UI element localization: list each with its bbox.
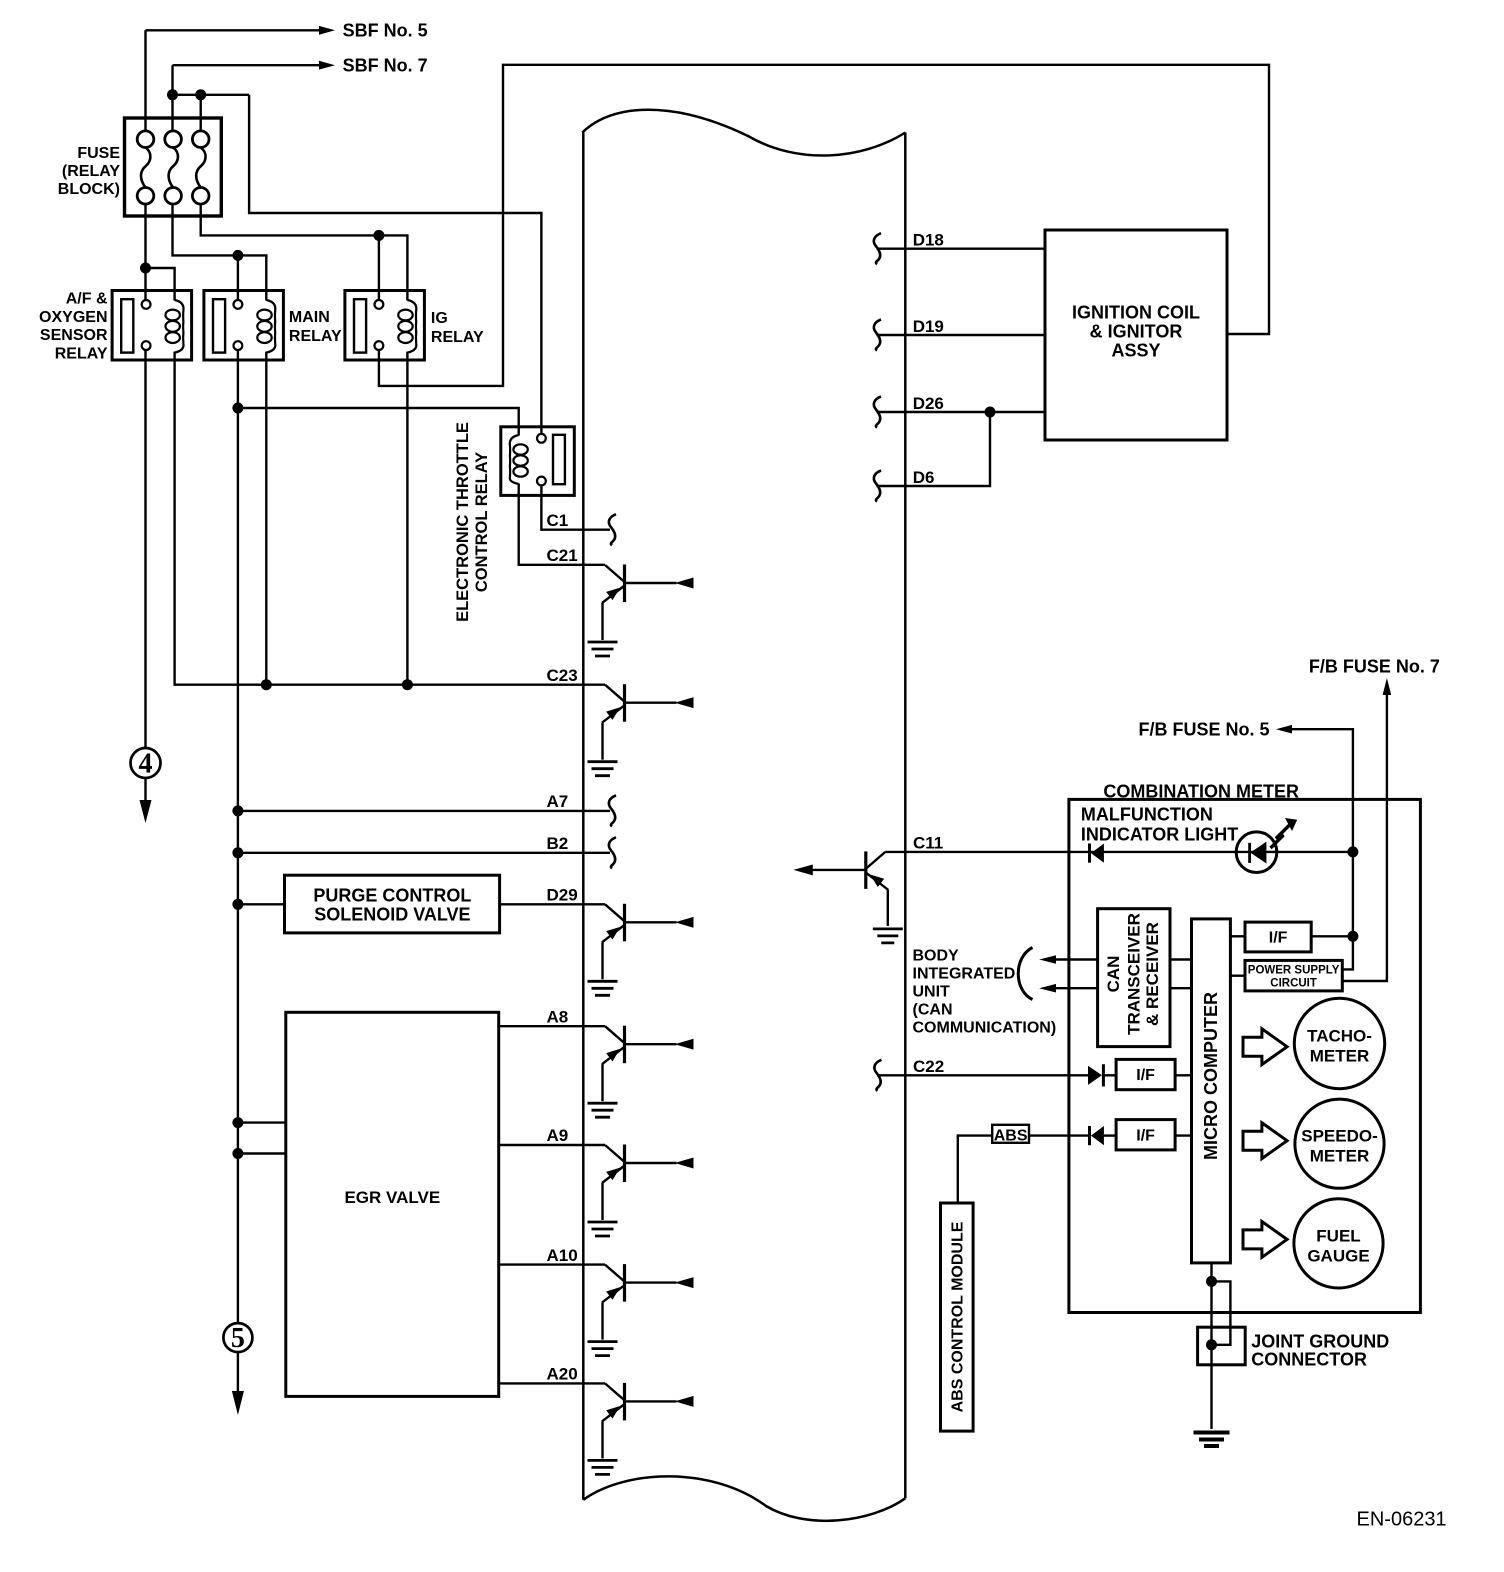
svg-text:GAUGE: GAUGE xyxy=(1307,1247,1369,1266)
svg-text:MAIN: MAIN xyxy=(289,309,330,326)
svg-text:EN-06231: EN-06231 xyxy=(1357,1509,1447,1531)
svg-text:METER: METER xyxy=(1310,1047,1370,1066)
svg-text:C21: C21 xyxy=(547,546,578,565)
svg-text:BLOCK): BLOCK) xyxy=(58,181,120,198)
svg-text:COMBINATION METER: COMBINATION METER xyxy=(1103,782,1299,802)
svg-text:ASSY: ASSY xyxy=(1111,341,1160,361)
svg-text:D26: D26 xyxy=(913,394,944,413)
svg-text:D19: D19 xyxy=(913,317,944,336)
svg-text:D29: D29 xyxy=(547,886,578,905)
svg-text:RELAY: RELAY xyxy=(55,346,108,363)
svg-text:C11: C11 xyxy=(913,834,943,853)
svg-text:FUEL: FUEL xyxy=(1316,1227,1360,1246)
svg-text:A9: A9 xyxy=(547,1126,569,1145)
svg-text:ABS CONTROL MODULE: ABS CONTROL MODULE xyxy=(950,1221,967,1412)
svg-text:CAN: CAN xyxy=(1104,956,1123,993)
svg-text:TACHO-: TACHO- xyxy=(1307,1027,1372,1046)
svg-text:CIRCUIT: CIRCUIT xyxy=(1270,978,1317,990)
svg-text:CONNECTOR: CONNECTOR xyxy=(1251,1350,1367,1370)
svg-text:SBF No. 7: SBF No. 7 xyxy=(343,56,428,76)
svg-text:OXYGEN: OXYGEN xyxy=(39,309,107,326)
svg-text:D6: D6 xyxy=(913,468,935,487)
svg-text:METER: METER xyxy=(1310,1147,1370,1166)
svg-text:IG: IG xyxy=(431,310,448,327)
svg-text:UNIT: UNIT xyxy=(913,984,951,1001)
svg-text:4: 4 xyxy=(139,749,153,780)
svg-text:BODY: BODY xyxy=(913,948,960,965)
svg-text:A8: A8 xyxy=(547,1007,569,1026)
svg-text:COMMUNICATION): COMMUNICATION) xyxy=(913,1020,1057,1037)
svg-text:A7: A7 xyxy=(547,792,569,811)
svg-text:JOINT GROUND: JOINT GROUND xyxy=(1251,1332,1389,1352)
svg-text:RELAY: RELAY xyxy=(289,328,342,345)
svg-text:FUSE: FUSE xyxy=(77,145,120,162)
svg-text:& IGNITOR: & IGNITOR xyxy=(1090,322,1183,342)
svg-text:SOLENOID VALVE: SOLENOID VALVE xyxy=(314,905,470,925)
svg-text:SPEEDO-: SPEEDO- xyxy=(1301,1127,1378,1146)
svg-text:& RECEIVER: & RECEIVER xyxy=(1143,922,1162,1026)
svg-text:C22: C22 xyxy=(913,1057,944,1076)
svg-text:SBF No. 5: SBF No. 5 xyxy=(343,21,428,41)
svg-text:I/F: I/F xyxy=(1269,930,1288,947)
svg-text:C23: C23 xyxy=(547,666,578,685)
svg-text:CONTROL RELAY: CONTROL RELAY xyxy=(473,452,491,592)
svg-text:ABS: ABS xyxy=(994,1128,1028,1145)
svg-text:I/F: I/F xyxy=(1136,1128,1155,1145)
svg-text:INDICATOR LIGHT: INDICATOR LIGHT xyxy=(1081,825,1238,845)
svg-text:ELECTRONIC THROTTLE: ELECTRONIC THROTTLE xyxy=(454,422,472,622)
svg-text:5: 5 xyxy=(231,1323,245,1354)
svg-text:MICRO COMPUTER: MICRO COMPUTER xyxy=(1201,992,1221,1160)
svg-text:MALFUNCTION: MALFUNCTION xyxy=(1081,805,1213,825)
svg-text:RELAY: RELAY xyxy=(431,329,484,346)
svg-text:D18: D18 xyxy=(913,231,944,250)
svg-text:(RELAY: (RELAY xyxy=(62,163,120,180)
svg-text:SENSOR: SENSOR xyxy=(40,327,108,344)
svg-text:A10: A10 xyxy=(547,1246,578,1265)
svg-text:F/B FUSE No. 5: F/B FUSE No. 5 xyxy=(1139,719,1270,739)
svg-text:(CAN: (CAN xyxy=(913,1002,953,1019)
svg-text:PURGE CONTROL: PURGE CONTROL xyxy=(313,886,471,906)
svg-text:IGNITION COIL: IGNITION COIL xyxy=(1072,303,1200,323)
svg-text:INTEGRATED: INTEGRATED xyxy=(913,966,1016,983)
svg-text:I/F: I/F xyxy=(1136,1067,1155,1084)
svg-text:POWER SUPPLY: POWER SUPPLY xyxy=(1248,965,1340,977)
svg-text:TRANSCEIVER: TRANSCEIVER xyxy=(1125,913,1144,1035)
svg-text:A20: A20 xyxy=(547,1365,578,1384)
svg-text:C1: C1 xyxy=(547,511,569,530)
svg-text:EGR VALVE: EGR VALVE xyxy=(344,1188,440,1207)
svg-text:F/B FUSE No. 7: F/B FUSE No. 7 xyxy=(1309,657,1440,677)
svg-text:B2: B2 xyxy=(547,834,569,853)
svg-text:A/F &: A/F & xyxy=(66,291,108,308)
